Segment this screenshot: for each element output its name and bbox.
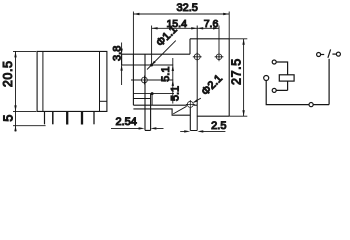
row 1 hole centerline bbox=[122, 64, 174, 66]
switch blade bbox=[328, 49, 331, 57]
relay body K1 side view bbox=[37, 51, 107, 111]
body inner edge line bbox=[42, 51, 44, 111]
riser wire bbox=[328, 59, 330, 105]
outline bottom right edge bbox=[197, 115, 229, 117]
dim 27.5 arrows bbox=[242, 39, 244, 116]
wire node to riser bbox=[313, 104, 329, 106]
coil pin hole row1 bbox=[150, 64, 153, 67]
svg-text:5: 5 bbox=[1, 115, 15, 122]
dim 32.5 extension lines bbox=[133, 12, 229, 55]
dim 2.5 arrows bbox=[184, 130, 203, 132]
dim 5 arrow bbox=[14, 126, 16, 132]
blade terminal 2 bbox=[190, 108, 197, 130]
leader phi1.1 arrow bbox=[151, 61, 156, 66]
dim 15.4 arrows bbox=[152, 27, 198, 29]
dim 20.5 extension lines bbox=[13, 51, 36, 111]
lower step line left bbox=[133, 98, 150, 100]
outline bottom left edge bbox=[133, 104, 197, 106]
outline step up bbox=[189, 39, 191, 54]
svg-text:20.5: 20.5 bbox=[1, 60, 15, 87]
dim 3.8 arrows bbox=[120, 49, 122, 71]
hole row 2 bbox=[140, 76, 149, 85]
common terminal bbox=[264, 76, 269, 81]
dim 15.4 line bbox=[152, 27, 198, 29]
node circle on bottom wire bbox=[309, 103, 313, 107]
svg-text:7.6: 7.6 bbox=[204, 18, 219, 30]
contact stub left bbox=[321, 54, 325, 56]
row 2 hole centerline bbox=[131, 79, 173, 81]
dim 7.6 extension line bbox=[218, 26, 220, 61]
svg-text:3.8: 3.8 bbox=[112, 46, 124, 61]
svg-text:5.1: 5.1 bbox=[160, 67, 172, 82]
dim 7.6 arrows bbox=[197, 27, 219, 29]
svg-text:5.1: 5.1 bbox=[170, 86, 182, 101]
body base step bottom-right bbox=[100, 100, 107, 102]
contact hole top 2 bbox=[215, 52, 224, 61]
dim 27.5 line bbox=[243, 39, 245, 116]
dim 27.5 extension lines bbox=[229, 39, 247, 116]
schematic coil terminal 2 bbox=[272, 88, 276, 92]
dim 20.5 arrows bbox=[14, 51, 16, 111]
contact stub right bbox=[332, 53, 336, 55]
outline top edge bbox=[122, 53, 190, 55]
dim 2.5 lines bbox=[180, 130, 225, 132]
dim 5 line bbox=[15, 111, 17, 131]
hole row 3 bbox=[151, 92, 154, 95]
contact terminal right bbox=[336, 52, 340, 56]
pin 4 bbox=[81, 111, 83, 124]
body inner edge line right bbox=[99, 51, 101, 111]
pin 5 bbox=[93, 111, 95, 124]
outline lower step bbox=[133, 109, 190, 115]
outline right edge bbox=[228, 39, 230, 116]
svg-text:2.5: 2.5 bbox=[211, 120, 226, 132]
wire t1 to coil bbox=[276, 62, 287, 75]
hidden edge below hole row 3 bbox=[151, 94, 153, 106]
outline raised top edge bbox=[190, 38, 229, 40]
dim 7.6 line bbox=[197, 27, 219, 29]
dim 5.1 line bbox=[172, 58, 174, 104]
blade 2 right edge + extension bbox=[196, 26, 198, 131]
leader phi2.1 bbox=[173, 98, 201, 114]
leader phi2.1 arrow bbox=[193, 99, 198, 103]
hole phi2.1 bbox=[186, 100, 195, 109]
dim 5.1 arrows bbox=[172, 65, 174, 100]
relay coil bbox=[279, 75, 294, 81]
bottom view left tab edge bbox=[121, 54, 123, 65]
dim 3.8 line bbox=[121, 43, 123, 86]
pin 1 bbox=[44, 111, 46, 124]
dim 20.5 line bbox=[15, 51, 17, 111]
wire common down and across bbox=[266, 81, 309, 105]
svg-text:2.54: 2.54 bbox=[115, 116, 136, 128]
outline left edge bbox=[132, 54, 134, 105]
contact hole top 1 bbox=[193, 52, 202, 61]
row 3 hole centerline bbox=[133, 93, 174, 95]
dim 5 extension line bbox=[13, 125, 46, 127]
schematic coil terminal 1 bbox=[272, 60, 276, 64]
dim 32.5 line bbox=[133, 13, 229, 15]
svg-text:32.5: 32.5 bbox=[176, 2, 197, 14]
contact terminal left bbox=[317, 53, 321, 57]
leader phi1.1 bbox=[147, 41, 176, 70]
wire coil to t2 bbox=[276, 81, 287, 90]
blade terminal 1 bbox=[145, 54, 151, 130]
dim 2.54 lines bbox=[111, 127, 164, 129]
dim 15.4 extension line bbox=[151, 26, 153, 64]
pin 2 bbox=[52, 111, 54, 124]
svg-text:Φ2.1: Φ2.1 bbox=[199, 73, 225, 99]
dim 32.5 arrows bbox=[133, 13, 229, 15]
svg-text:27.5: 27.5 bbox=[229, 58, 243, 85]
pin 3 bbox=[66, 111, 68, 124]
dim 2.54 arrows bbox=[139, 127, 157, 129]
